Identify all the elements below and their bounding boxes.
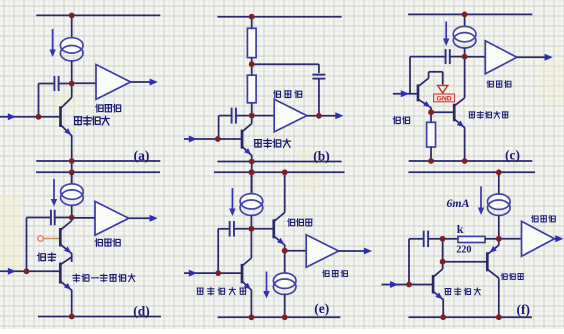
node dots (b)	[249, 14, 255, 20]
wire: (b) top supply rail	[217, 16, 341, 18]
label: (a) output-stage text	[96, 104, 121, 112]
current source I4 (e)	[240, 194, 263, 209]
wire: (b) R1 to R2	[251, 58, 253, 76]
label: (f) voltage-amp text	[445, 288, 480, 295]
wire: (e) source2 to rail	[284, 294, 286, 317]
wire: (c) Q4 emitter to rail	[464, 127, 466, 161]
wire: (e) Q8 emitter to rail	[250, 290, 252, 318]
output arrow (f)	[555, 235, 563, 242]
wire: (f) resistor to source node	[485, 238, 499, 240]
svg-text:(b): (b)	[313, 149, 330, 164]
svg-text:(a): (a)	[134, 148, 150, 163]
label: (c) voltage-amp text	[469, 111, 508, 118]
node dots (f)	[496, 169, 502, 175]
svg-text:GND: GND	[437, 95, 452, 102]
wire: (d) rail to source	[71, 172, 73, 184]
transistor Q10 (f) pnp follower	[487, 239, 499, 278]
wire: (a) emitter down through rails	[71, 135, 73, 184]
wire: (b) collector node row	[236, 115, 274, 117]
bias terminal (d)	[38, 236, 60, 241]
wire: (f) base row	[443, 261, 488, 263]
input arrow (f)	[390, 281, 398, 288]
current arrow (d)	[53, 179, 55, 202]
wire: (f) cap node down to base node	[442, 239, 444, 262]
input arrow (d)	[8, 268, 16, 275]
current arrow (e) lower	[266, 272, 268, 294]
wire: (a) output	[131, 81, 152, 83]
wire: (f) cap branch down	[408, 239, 410, 285]
wire: (b) cap left branch	[219, 115, 232, 117]
wire: (a) cap branch down to input	[38, 84, 40, 117]
output arrow (e)	[364, 248, 372, 255]
label: (e) follower text	[288, 219, 313, 227]
label: (d) bias text	[38, 253, 56, 262]
label: (f) follower text	[501, 273, 523, 279]
wire: (c) resistor to rail	[430, 147, 432, 161]
node A1 dots (a)	[69, 13, 75, 19]
wire: bottom rail of (a)	[36, 160, 160, 162]
transistor Q1 (a)	[61, 84, 72, 136]
wire: (e) output	[339, 250, 366, 252]
input arrow (b)	[189, 136, 197, 143]
wire: (b) output	[307, 115, 338, 117]
svg-text:(c): (c)	[505, 148, 520, 163]
wire: (b) input line	[184, 138, 242, 140]
wire: top rail of (d)	[36, 171, 160, 173]
wire: (f) node row left	[409, 238, 424, 240]
wire: (d) Q6 emitter to rail	[71, 290, 73, 317]
current arrow (e) upper	[231, 188, 233, 211]
ground GND (c)	[434, 85, 455, 102]
transistor Q7 (e) follower	[274, 172, 285, 245]
label: (c) output-stage text	[487, 81, 511, 88]
wire: (b) R2 to collector node	[251, 103, 253, 116]
node: (a) collector node wires	[39, 83, 55, 85]
wire: (e) source1 to node	[250, 215, 252, 229]
label: (c) follower text	[393, 116, 410, 124]
label: (d) cascode text	[73, 274, 135, 282]
wire: (f) source to node	[498, 215, 500, 239]
wire: top rail of (f)	[408, 171, 535, 173]
wire: (b) tap to cap	[252, 63, 319, 65]
label: (e) output-stage text	[323, 270, 348, 277]
wire: (a) top supply rail	[36, 14, 160, 16]
wire: (e) rail to source1	[250, 172, 252, 194]
wire: (e) node row	[218, 228, 230, 230]
wire: (c) base row to Q4	[431, 111, 454, 113]
current source I6 (f) 6mA	[488, 194, 511, 209]
current arrow (f)	[480, 187, 482, 211]
wire: (a) current source drop	[71, 15, 73, 38]
svg-text:k: k	[457, 222, 464, 236]
output arrow (d)	[150, 215, 158, 222]
capacitor C2 (b) feedback cap	[312, 74, 325, 76]
op-amp output stage (e)	[306, 235, 338, 267]
wire: (f) Q10 collector to rail	[498, 278, 500, 317]
wire: (e) cap branch down	[217, 229, 219, 273]
capacitor C4 (c)	[445, 49, 447, 64]
wire: (c) top supply rail	[408, 13, 532, 15]
wire: (d) bottom rail	[38, 316, 161, 318]
wire: (d) Q5 emitter to Q6 collector	[71, 253, 73, 262]
capacitor C5 (d) Miller cap	[50, 210, 52, 226]
capacitor C1 (a) Miller cap	[53, 76, 55, 91]
wire: (b) rail to R1	[251, 17, 253, 29]
wire: (e) Q7 emitter node	[284, 245, 286, 251]
wire: (d) source to node	[71, 205, 73, 218]
wire: (c) cap branch down	[409, 57, 411, 94]
op-amp output stage (b)	[274, 99, 307, 132]
resistor R1 (b)	[247, 28, 256, 57]
wire: (f) rail to source	[498, 172, 500, 194]
current arrow (a)	[52, 29, 54, 52]
capacitor C3 (b) Miller cap	[231, 108, 233, 124]
svg-text:6mA: 6mA	[447, 196, 470, 210]
transistor Q6 (d) common-emitter	[60, 257, 71, 290]
resistor R4 (f)	[458, 236, 485, 242]
transistor Q9 (f) voltage amp	[433, 262, 443, 300]
label: (b) voltage-amp text	[254, 139, 290, 148]
transistor Q3 (c) emitter follower	[418, 72, 443, 108]
wire: (b) cap down to output	[318, 79, 320, 116]
resistor R3 (c)	[427, 122, 436, 147]
transistor Q8 (e) voltage amp	[242, 229, 251, 290]
wire: top rail of (e)	[214, 171, 345, 173]
wire: (f) Q9 emitter to rail	[442, 299, 444, 317]
wire: (d) output	[129, 217, 152, 219]
output arrow (b)	[335, 112, 343, 119]
op-amp output stage (f)	[522, 221, 555, 256]
wire: (c) source to node	[464, 48, 466, 57]
resistor R2 (b)	[247, 75, 256, 103]
wire: (f) bottom rail	[409, 316, 532, 318]
op-amp output stage (a)	[96, 65, 131, 100]
wire: (d) cap branch down	[26, 218, 28, 272]
svg-text:(f): (f)	[517, 302, 531, 317]
wire: bottom rail of (c)	[409, 160, 533, 162]
wire: (d) node row	[27, 217, 52, 219]
current source I1 (a)	[60, 38, 83, 53]
label: (d) output-stage text	[95, 239, 120, 247]
current source I5 (e)	[284, 251, 286, 273]
label: (b) output-stage text	[274, 90, 302, 97]
wire: (c) node to resistor	[430, 112, 432, 122]
capacitor C7 (f) Miller cap	[423, 231, 425, 248]
svg-text:220: 220	[456, 245, 471, 256]
wire: (e) bottom rail	[218, 316, 341, 318]
wire: (e) input line	[184, 272, 242, 274]
output arrow (a)	[150, 79, 158, 86]
wire: (c) node row	[410, 56, 446, 58]
current source I3 (d)	[61, 184, 84, 199]
capacitor C6 (e) Miller cap	[229, 221, 231, 237]
node dots (e)	[249, 169, 255, 175]
wire: (c) rail to source	[464, 14, 466, 27]
wire: (a) source to collector node	[71, 61, 73, 84]
wire: (b) emitter down through rails	[251, 155, 253, 195]
wire: bottom rail of (b)	[217, 161, 341, 163]
wire: (c) output	[517, 56, 547, 58]
input arrow (c)	[401, 90, 409, 97]
input arrow (a)	[8, 113, 16, 120]
wire: (e) output row	[285, 250, 307, 252]
wire: (f) output	[554, 238, 558, 240]
node dots (c)	[462, 12, 468, 18]
svg-text:(e): (e)	[314, 301, 329, 316]
current source I2 (c)	[453, 26, 476, 41]
transistor Q5 (d) common-base	[60, 218, 71, 254]
svg-text:(d): (d)	[133, 304, 150, 319]
op-amp output stage (c)	[485, 41, 517, 74]
wire: (f) node to amp	[499, 238, 522, 240]
wire: (a) input line	[0, 116, 61, 118]
op-amp output stage (d)	[95, 201, 129, 235]
label: (e) voltage-amp text	[197, 287, 246, 295]
transistor Q2 (b)	[242, 116, 252, 155]
node dots (d)	[69, 215, 75, 221]
wire: (d) input line	[0, 270, 60, 272]
wire: (c) input line	[393, 93, 418, 95]
output arrow (c)	[545, 54, 553, 61]
input arrow (e)	[189, 270, 197, 277]
wire: (c) emitter to base node	[430, 107, 432, 112]
wire: (f) input line	[382, 284, 434, 286]
label: (f) output-stage text	[532, 215, 556, 222]
label: (a) voltage-amp text	[74, 116, 109, 125]
transistor Q4 (c) voltage amp	[454, 57, 464, 128]
current arrow (c)	[445, 22, 447, 42]
